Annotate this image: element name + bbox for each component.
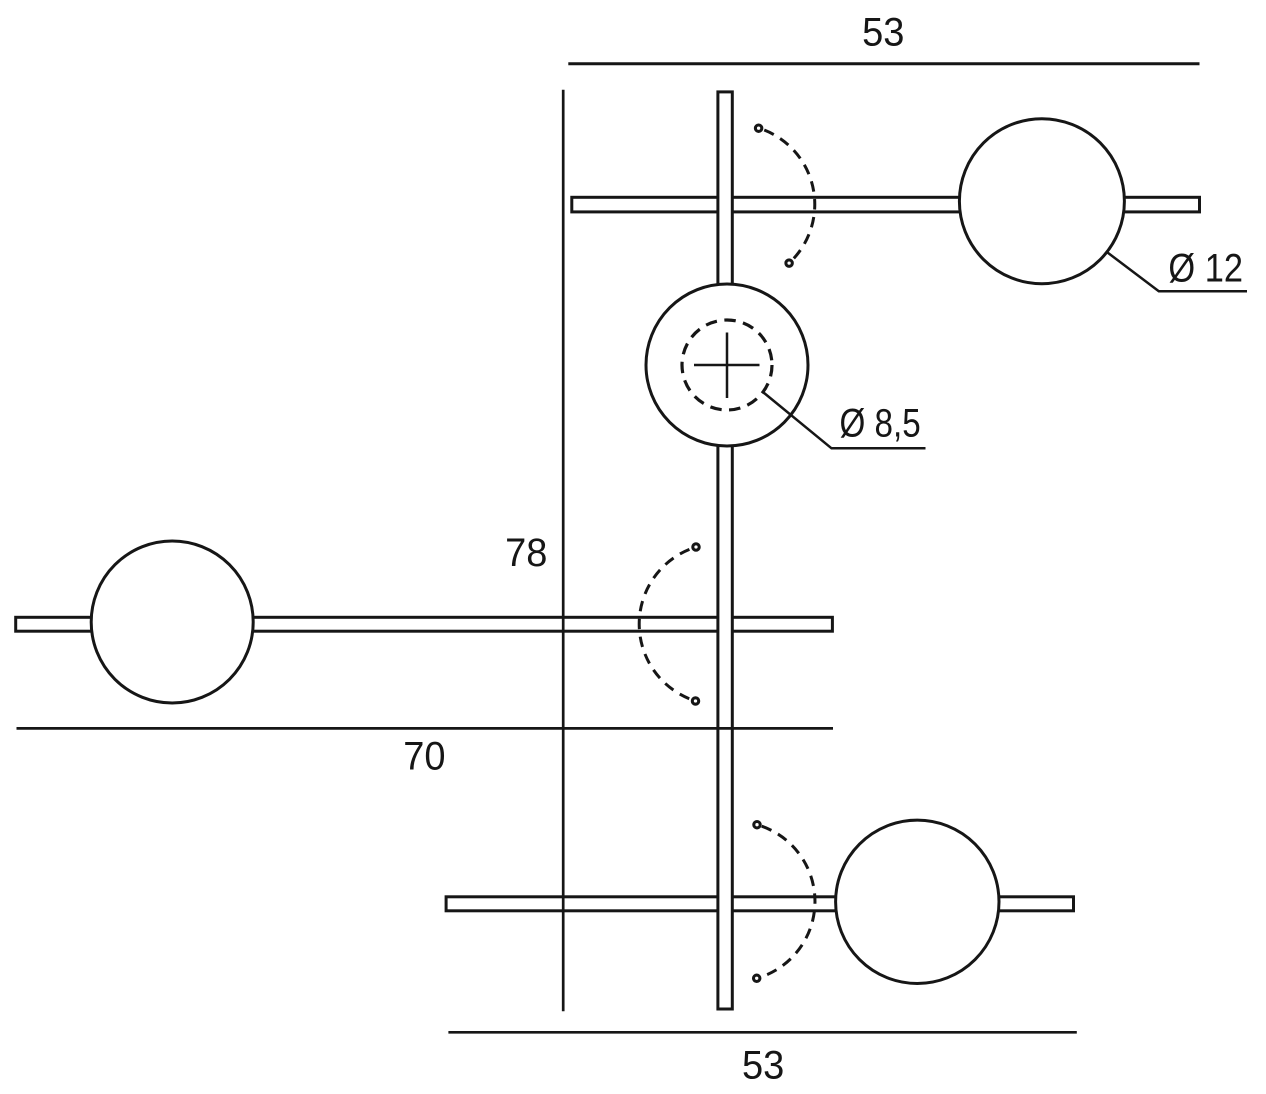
svg-text:78: 78 (505, 531, 547, 575)
svg-text:53: 53 (742, 1044, 784, 1088)
svg-text:53: 53 (862, 11, 904, 55)
svg-text:Ø 12: Ø 12 (1168, 245, 1243, 290)
svg-text:Ø 8,5: Ø 8,5 (839, 401, 920, 446)
svg-text:70: 70 (403, 734, 445, 778)
